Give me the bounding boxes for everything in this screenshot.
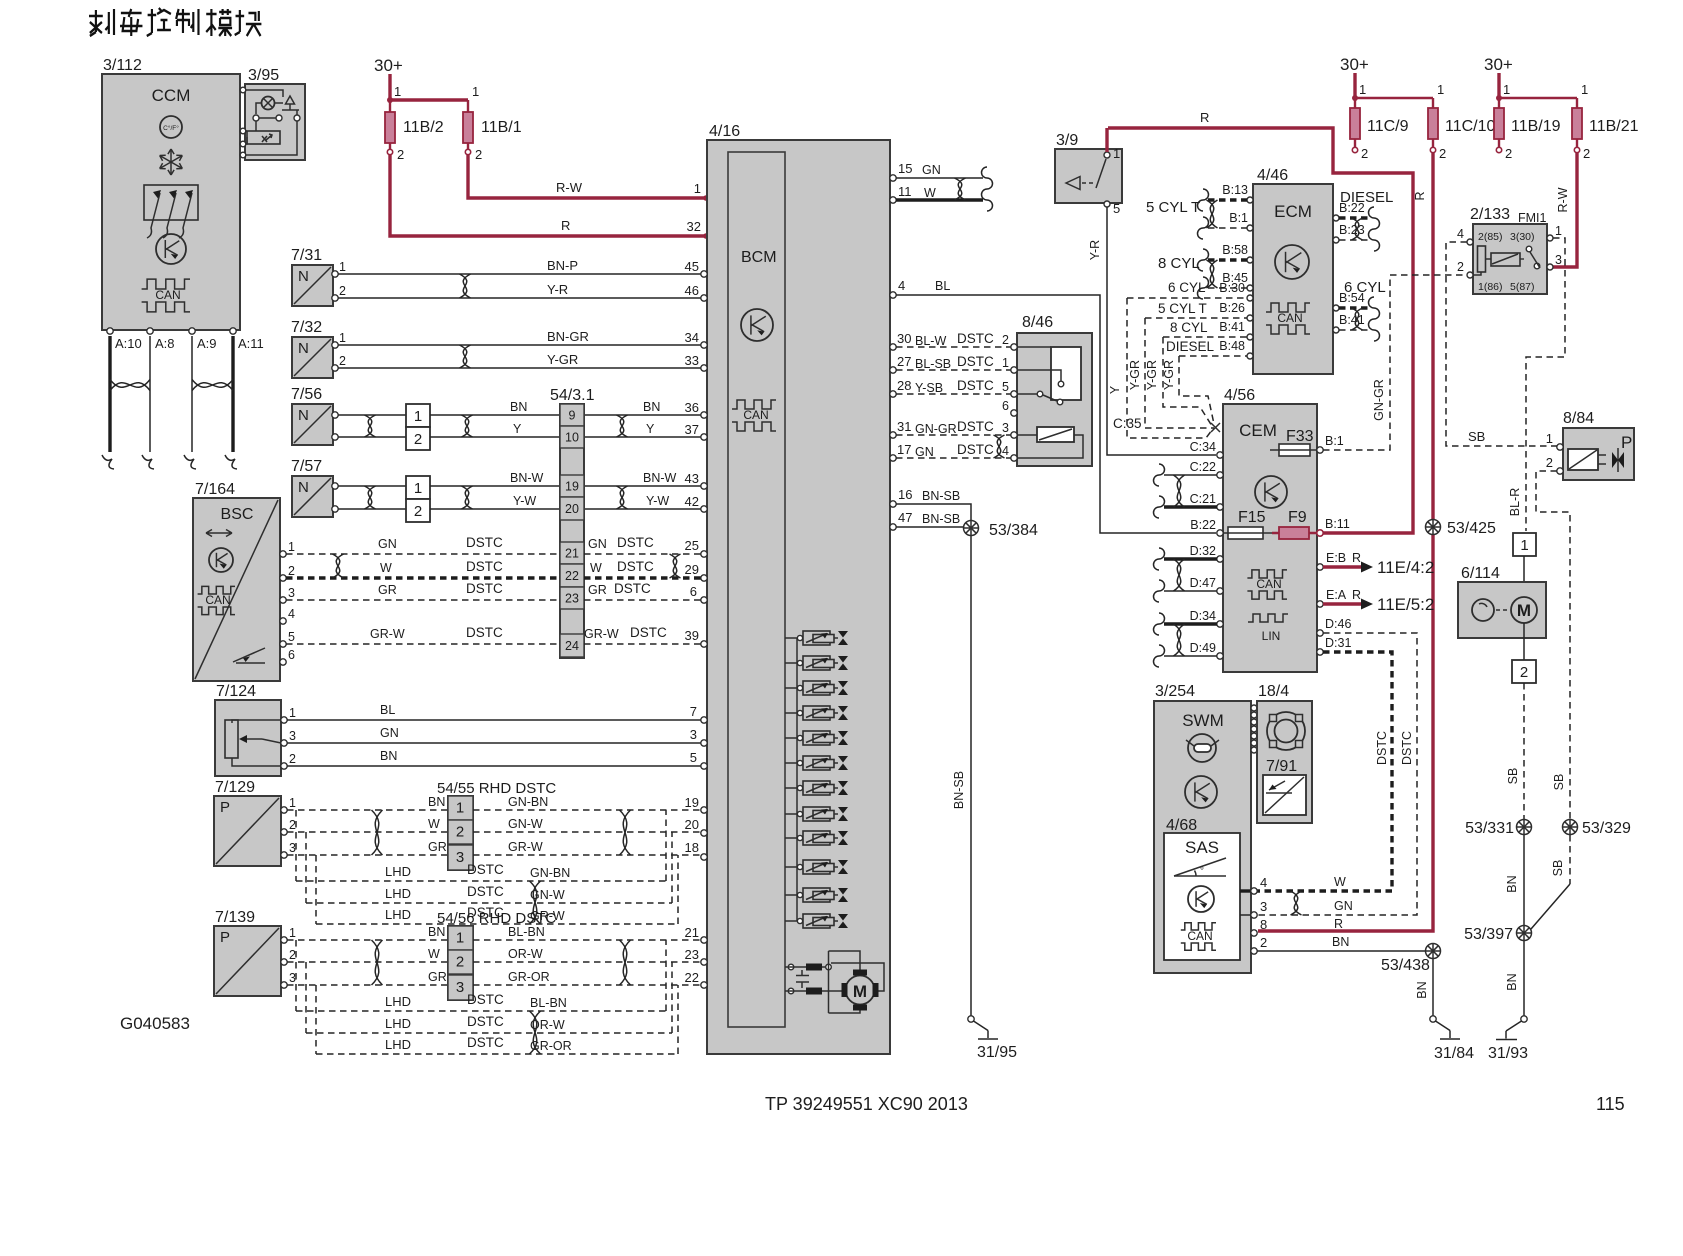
arrow wire E:A R to 11E/5:2 [1317,601,1323,607]
wire SB splice 53/329 to splice 53/397 [1569,835,1571,884]
svg-text:GR: GR [378,583,397,597]
svg-text:45: 45 [685,259,699,274]
svg-text:22: 22 [685,970,699,985]
svg-text:F9: F9 [1288,509,1307,526]
wire Y-SB DSTC BCM 28 to 8/46 [896,393,1014,395]
svg-text:7/31: 7/31 [291,247,322,264]
wire BN-SB BCM 16 to ground 31/95 [896,504,971,1016]
svg-text:BN-W: BN-W [510,471,544,485]
svg-text:B:23: B:23 [1339,223,1365,237]
svg-text:11E/5:2: 11E/5:2 [1377,595,1434,614]
svg-text:27: 27 [897,354,911,369]
svg-text:53/438: 53/438 [1381,957,1430,974]
svg-text:N: N [298,479,309,496]
svg-text:1: 1 [1437,82,1444,97]
twisted pair 7/139 LHD [530,1011,541,1054]
wires 54/3.1 to BCM pins 43 42 [584,485,704,487]
wire GN-GR DSTC BCM 31 to 8/46 [896,434,1014,436]
svg-text:2: 2 [1457,260,1464,274]
Y/Y-GR dashed bundle to CEM C:35 [1127,298,1212,438]
svg-text:GN: GN [378,537,397,551]
shielded pair D:34/D:49 [1164,622,1217,625]
svg-text:Y: Y [646,422,655,436]
wire GN-BN 54/55 to BCM 19 [473,809,704,811]
svg-text:2: 2 [1260,935,1267,950]
wire B:45 8CYL [1208,287,1247,289]
wire to 6/114 [1523,556,1525,582]
svg-text:R: R [1200,110,1209,125]
angle symbol SAS [1174,858,1226,876]
svg-text:42: 42 [685,494,699,509]
svg-text:6 CYL: 6 CYL [1344,279,1386,296]
svg-text:54/3.1: 54/3.1 [550,387,595,404]
LIN symbol CEM [1248,614,1288,622]
svg-text:30+: 30+ [374,56,403,75]
wire GR 7/139 pin3 to 54/56 [287,984,448,986]
wire SB relay pin 4 to 8/84 pin 1 [1446,242,1557,446]
wire SB 8/84 pin 2 to splice 53/329 [1536,471,1570,819]
fuse 11C/10 [1432,108,1434,147]
svg-text:TP 39249551 XC90 2013: TP 39249551 XC90 2013 [765,1094,968,1114]
svg-text:E:A: E:A [1326,588,1347,602]
svg-text:DSTC: DSTC [1400,731,1414,765]
CEM left pins [1217,452,1223,458]
ground 31/84 [1430,1016,1436,1022]
svg-text:W: W [380,561,392,575]
wire W BCM 11 (thick) [896,198,983,201]
svg-text:B:1: B:1 [1325,434,1344,448]
svg-text:18: 18 [685,840,699,855]
svg-text:4: 4 [1260,875,1267,890]
svg-text:47: 47 [898,510,912,525]
wire Y-GR 7/32 pin2 to BCM 33 [338,367,704,369]
svg-text:5: 5 [288,630,295,644]
svg-text:8: 8 [1260,917,1267,932]
svg-text:D:46: D:46 [1325,617,1351,631]
svg-text:3: 3 [1555,253,1562,267]
twisted pair 7/57 mid [462,486,473,509]
svg-text:2: 2 [1505,146,1512,161]
svg-text:D:49: D:49 [1190,641,1216,655]
svg-text:BN: BN [428,925,445,939]
svg-text:D:34: D:34 [1190,609,1216,623]
svg-text:F33: F33 [1286,428,1314,445]
8/84 valve symbol [1617,448,1619,472]
svg-text:1: 1 [289,706,296,720]
svg-text:FMI1: FMI1 [1518,211,1547,225]
svg-text:1: 1 [1503,82,1510,97]
CEM right pin B:11 (red) [1317,530,1323,536]
svg-text:6: 6 [1002,399,1009,413]
twisted pair 7/56 mid [462,415,473,437]
cable hooks BCM 15/11 [982,167,993,189]
svg-text:11C/10: 11C/10 [1445,118,1496,135]
wire BL-SB DSTC BCM 27 to 8/46 [896,369,1014,371]
svg-text:30+: 30+ [1484,55,1513,74]
wire GR DSTC BSC pin3 [286,599,560,601]
svg-text:Y: Y [513,422,522,436]
svg-text:4/68: 4/68 [1166,817,1197,834]
inline connector 2 [1523,623,1525,660]
svg-text:4: 4 [288,607,295,621]
svg-text:1: 1 [694,181,701,196]
twisted pair BCM 31/17 [994,435,1005,458]
svg-text:DSTC: DSTC [467,862,504,877]
svg-text:DSTC: DSTC [467,1035,504,1050]
solenoid valve row 3 [785,687,797,689]
relay sub-box 3/95 [247,131,280,144]
svg-text:10: 10 [565,431,579,445]
svg-text:4: 4 [898,278,905,293]
svg-text:2: 2 [1546,455,1553,470]
solenoid valve row 11 [785,894,797,896]
ECM right pins DIESEL B:22 B:23 [1333,215,1339,221]
svg-text:A:9: A:9 [197,336,217,351]
svg-text:B:41: B:41 [1339,313,1365,327]
svg-text:7/32: 7/32 [291,319,322,336]
svg-text:2: 2 [289,948,296,962]
svg-text:DSTC: DSTC [617,559,654,574]
svg-text:4: 4 [1002,444,1009,458]
svg-text:°: ° [1200,866,1204,877]
solenoid valve row 6 [785,762,797,764]
wiring 3/95 [243,90,283,97]
svg-text:11B/21: 11B/21 [1589,118,1639,135]
svg-text:G040583: G040583 [120,1014,190,1033]
wires DSTC strip to BCM 25/29/6/39 [584,553,704,555]
svg-text:2: 2 [1002,333,1009,347]
svg-text:Y-W: Y-W [513,494,536,508]
svg-text:2(85): 2(85) [1478,231,1503,243]
svg-text:6/114: 6/114 [1461,565,1500,582]
svg-text:1: 1 [1555,224,1562,238]
svg-text:DSTC: DSTC [630,625,667,640]
svg-text:1(86): 1(86) [1478,281,1503,293]
svg-text:D:47: D:47 [1190,576,1216,590]
wire CCM A:11 shielded [231,336,234,452]
svg-text:21: 21 [565,547,579,561]
svg-text:GR: GR [428,970,447,984]
cable continuation hooks [102,455,114,469]
8/46 switch contact [1051,347,1081,400]
wire OR-W 54/56 to BCM 23 [473,961,704,963]
wire LHD DSTC GR-W bypass [315,855,317,924]
svg-text:R: R [1352,588,1361,602]
wire GN BCM 15 [896,177,983,179]
svg-text:GN-BN: GN-BN [508,795,548,809]
svg-text:W: W [590,561,602,575]
svg-text:DSTC: DSTC [467,884,504,899]
svg-text:CAN: CAN [1277,311,1302,325]
wires 7/56 connector to 54/3.1 [430,414,560,416]
splice 53/425 on R wire [1426,520,1441,535]
svg-text:2: 2 [456,824,464,841]
inline connector 7/57 terminals 1 2 [406,476,430,499]
svg-text:1: 1 [414,408,422,425]
svg-text:3: 3 [1260,899,1267,914]
twisted pair A:10/A:8 [110,380,150,391]
svg-text:37: 37 [685,422,699,437]
svg-text:17: 17 [897,442,911,457]
svg-text:28: 28 [897,378,911,393]
svg-text:31: 31 [897,419,911,434]
svg-text:Y-GR: Y-GR [1128,360,1142,390]
svg-text:C:21: C:21 [1190,492,1216,506]
K transistor symbol CEM [1255,476,1287,508]
wire BN SAS pin 2 to splice 53/438 [1257,950,1426,952]
svg-text:33: 33 [685,353,699,368]
solenoid valve row 9 [785,837,797,839]
svg-text:1: 1 [1113,146,1120,161]
svg-text:D:32: D:32 [1190,544,1216,558]
svg-text:GN-GR: GN-GR [1372,379,1386,421]
svg-text:DIESEL: DIESEL [1166,339,1215,354]
svg-text:4: 4 [1457,227,1464,241]
relay coil 2/133 [1478,246,1486,272]
lamp symbol 3/95 [262,97,275,110]
3/9 switch lever [1104,152,1110,158]
svg-text:BN: BN [510,400,527,414]
wire BN 7/124 to BCM 5 [287,765,704,767]
svg-text:5: 5 [1113,201,1120,216]
svg-text:CAN: CAN [1187,929,1212,943]
svg-text:22: 22 [565,569,579,583]
svg-text:8 CYL: 8 CYL [1158,255,1200,272]
potentiometer symbol 7/124 [225,720,238,758]
svg-text:1: 1 [394,84,401,99]
svg-text:2: 2 [1361,146,1368,161]
CAN symbol BCM [732,400,776,409]
svg-text:SWM: SWM [1182,711,1224,730]
wire BL 7/124 to BCM 7 [287,719,704,721]
svg-text:1: 1 [339,260,346,274]
svg-text:11C/9: 11C/9 [1367,118,1409,135]
svg-text:5 CYL T: 5 CYL T [1146,199,1200,216]
fuse 11B/2 [389,113,391,149]
svg-text:DSTC: DSTC [957,331,994,346]
twisted pair 7/57 right [617,486,628,509]
svg-text:BL-SB: BL-SB [915,357,951,371]
svg-text:36: 36 [685,400,699,415]
svg-text:GN: GN [915,445,934,459]
svg-text:SB: SB [1468,429,1485,444]
wire B:58 8CYL (thick dashed) [1208,258,1247,261]
svg-text:11B/1: 11B/1 [481,119,522,136]
wire GN-W 54/55 to BCM 20 [473,831,704,833]
heated window symbol [144,185,198,220]
svg-text:3/9: 3/9 [1056,132,1078,149]
BCM solenoid valve bank [796,638,798,921]
ECM left pins [1247,197,1253,203]
wire CCM A:10 shielded [108,336,111,452]
svg-text:LHD: LHD [385,1016,411,1031]
svg-text:31/95: 31/95 [977,1044,1017,1061]
wire R fuse 11B/2 to BCM pin 32 [390,155,705,236]
svg-text:1: 1 [339,331,346,345]
svg-text:Y-GR: Y-GR [1162,360,1176,390]
twisted pair 5CYL T [1207,200,1218,228]
wire GN DSTC BCM 17 to 8/46 [896,457,1014,459]
svg-text:P: P [1621,433,1632,452]
svg-text:B:41: B:41 [1219,320,1245,334]
solenoid valve row 2 [785,662,797,664]
svg-text:BN: BN [1505,875,1519,892]
svg-text:Y-R: Y-R [547,282,568,297]
svg-text:21: 21 [685,925,699,940]
svg-text:DSTC: DSTC [466,581,503,596]
svg-text:SB: SB [1552,774,1566,791]
svg-text:DSTC: DSTC [467,1014,504,1029]
CCM pins A:10 A:8 A:9 A:11 [107,328,113,334]
svg-text:W: W [924,186,936,200]
svg-text:W: W [428,947,440,961]
svg-text:3: 3 [289,729,296,743]
wires 7/57 to connector [338,485,406,487]
svg-text:53/331: 53/331 [1465,820,1514,837]
title 刹车控制模块 (hand-drawn strokes) [89,8,261,36]
svg-text:D:31: D:31 [1325,636,1351,650]
wire BN splice 53/438 to ground 31/84 [1432,959,1434,1016]
svg-text:2: 2 [339,354,346,368]
wire LHD DSTC GN-W bypass [305,832,307,903]
wires 7/57 connector to 54/3.1 [430,485,560,487]
svg-text:11B/2: 11B/2 [403,119,444,136]
inline connector 7/56 terminals 1 2 [406,404,430,427]
twisted pair 7/129 right [620,810,631,855]
shielded pair C:22/C:21 [1164,474,1217,476]
svg-text:DSTC: DSTC [466,625,503,640]
svg-text:B:26: B:26 [1219,301,1245,315]
svg-text:7/91: 7/91 [1266,758,1297,775]
svg-text:2: 2 [339,284,346,298]
twisted pair 7/129 left [372,810,383,855]
svg-text:2: 2 [1439,146,1446,161]
svg-text:BN: BN [1332,935,1349,949]
svg-text:20: 20 [685,817,699,832]
svg-text:BN-P: BN-P [547,258,578,273]
svg-text:BL: BL [935,279,950,293]
svg-text:CAN: CAN [743,408,768,422]
svg-text:Y-R: Y-R [1088,240,1102,260]
8/46 coil [1037,427,1074,442]
svg-text:7/124: 7/124 [216,683,256,700]
wire GN DSTC CEM D:46 to SAS pin 3 [1317,630,1323,636]
svg-text:2: 2 [414,431,422,448]
svg-text:1: 1 [289,926,296,940]
svg-text:B:11: B:11 [1325,517,1350,531]
wire B:13 5CYL T (thick dashed) [1208,198,1247,201]
svg-text:2: 2 [414,503,422,520]
svg-text:BN-SB: BN-SB [922,489,960,503]
splice 53/384 [964,521,979,536]
svg-text:53/397: 53/397 [1464,926,1513,943]
svg-text:1: 1 [414,480,422,497]
svg-text:15: 15 [898,161,912,176]
twisted pair 8CYL [1207,260,1218,288]
svg-text:CAN: CAN [205,593,230,607]
svg-text:BSC: BSC [221,506,254,523]
svg-text:DSTC: DSTC [957,354,994,369]
svg-text:30: 30 [897,331,911,346]
svg-text:6 CYL: 6 CYL [1168,280,1206,295]
svg-text:DSTC: DSTC [957,419,994,434]
svg-text:DSTC: DSTC [617,535,654,550]
svg-text:CCM: CCM [152,86,191,105]
twisted pair SAS W/GN [1291,891,1302,915]
svg-text:19: 19 [565,480,579,494]
svg-text:16: 16 [898,487,912,502]
svg-text:BL: BL [380,703,395,717]
svg-text:BL-W: BL-W [915,334,946,348]
wire Y-R 7/31 pin2 to BCM 46 [338,297,704,299]
svg-text:Y-GR: Y-GR [547,352,578,367]
splice 53/438 [1426,944,1441,959]
antenna/buzzer symbol 3/95 [286,96,295,104]
wire R-W fuse 11B/21 to relay 2/133 pin 3 [1553,153,1577,267]
svg-text:32: 32 [687,219,701,234]
svg-text:9: 9 [569,409,576,423]
K transistor symbol CCM [156,234,186,264]
svg-text:GR-W: GR-W [508,840,543,854]
svg-text:20: 20 [565,502,579,516]
twisted pair right GN/W [670,554,681,578]
svg-text:GN: GN [380,726,399,740]
BSC pins 1-6 [280,551,286,557]
svg-text:3: 3 [690,727,697,742]
svg-text:8/46: 8/46 [1022,314,1053,331]
twisted pair 7/57 left [365,486,376,509]
svg-text:18/4: 18/4 [1258,683,1289,700]
svg-text:1: 1 [1002,356,1009,370]
svg-text:1: 1 [288,540,295,554]
svg-text:B:1: B:1 [1229,211,1248,225]
svg-text:25: 25 [685,538,699,553]
wire R 3/9 to CEM F9/B:11 [1108,128,1413,533]
svg-text:BN: BN [428,795,445,809]
svg-text:GR-OR: GR-OR [508,970,550,984]
wire LHD DSTC GN-BN bypass [295,810,297,881]
svg-text:2/133: 2/133 [1470,206,1510,223]
wire BN splice to splice 53/397 [1523,835,1525,925]
svg-text:E:B: E:B [1326,551,1346,565]
svg-text:R: R [561,218,570,233]
svg-text:8 CYL: 8 CYL [1170,320,1208,335]
twisted pair 7/31 [460,274,471,298]
svg-text:3: 3 [288,586,295,600]
svg-text:53/384: 53/384 [989,522,1038,539]
BCM inner unit box [728,152,785,1027]
node C:35 cross [1211,423,1220,432]
wire BN 7/139 pin1 to 54/56 [287,939,448,941]
svg-text:B:58: B:58 [1222,243,1248,257]
motor M symbol [846,976,875,1005]
twisted pair 7/129 LHD [530,881,541,924]
svg-text:Y-GR: Y-GR [1145,360,1159,390]
svg-text:GR: GR [428,840,447,854]
wire GR-OR 54/56 to BCM 22 [473,984,704,986]
svg-text:31/93: 31/93 [1488,1045,1528,1062]
twisted pair 7/56 left [365,415,376,437]
svg-text:DSTC: DSTC [1375,731,1389,765]
svg-text:2: 2 [397,147,404,162]
splice 53/329 [1563,820,1578,835]
svg-text:3/254: 3/254 [1155,683,1195,700]
svg-text:2: 2 [456,954,464,971]
svg-text:7/129: 7/129 [215,779,255,796]
svg-text:34: 34 [685,330,699,345]
wire GN DSTC BSC pin1 to strip 21 [286,553,560,555]
fuse 11B/19 [1498,108,1500,147]
